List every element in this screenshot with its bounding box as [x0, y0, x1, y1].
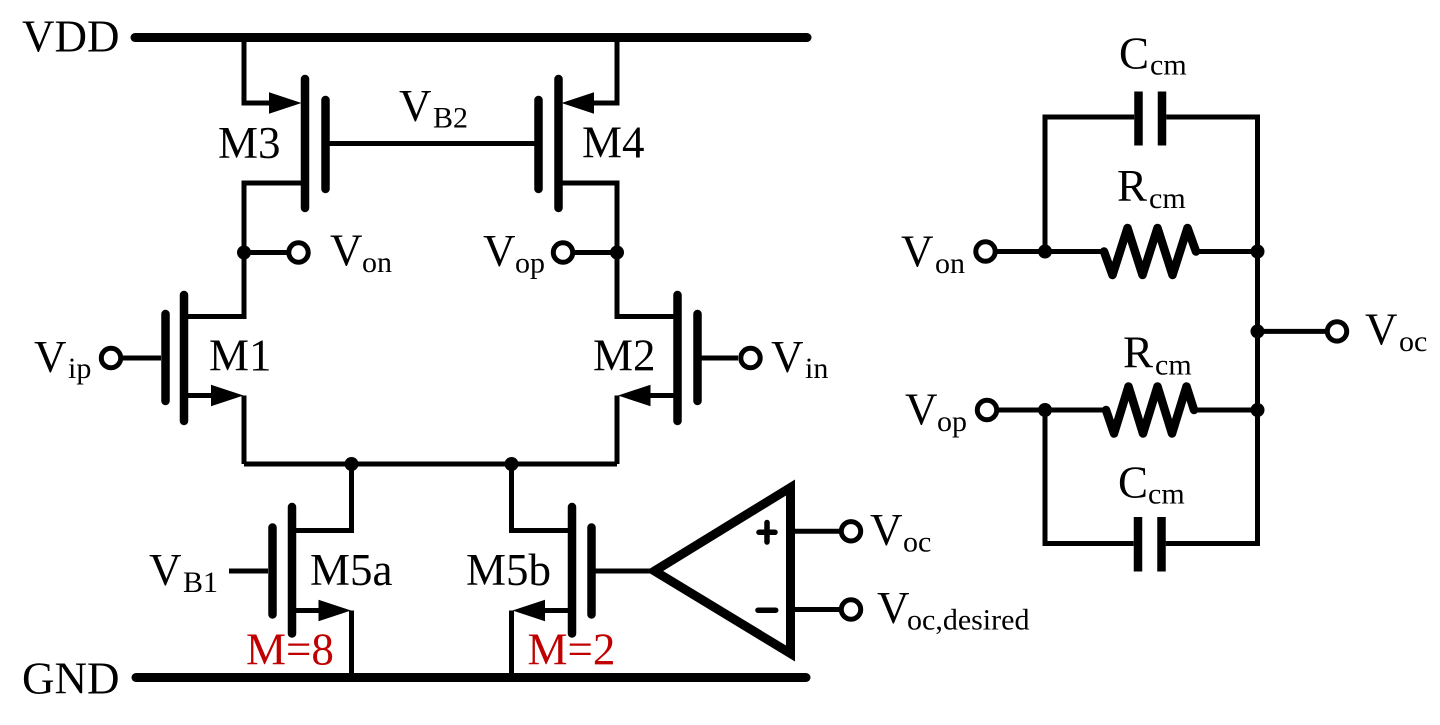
- wire M5b source with arrow to GND: [512, 600, 569, 678]
- transistor M5b: [466, 507, 592, 634]
- svg-text:GND: GND: [22, 654, 120, 704]
- svg-text:M3: M3: [218, 118, 281, 168]
- op-amp U1: [655, 488, 791, 654]
- svg-text:cm: cm: [1148, 478, 1185, 511]
- node Von-Ccm junction: [1038, 245, 1052, 259]
- svg-text:M2: M2: [593, 331, 656, 381]
- svg-text:M=8: M=8: [246, 625, 334, 675]
- svg-text:cm: cm: [1155, 349, 1192, 382]
- wire Rcm bottom to right column: [1194, 408, 1258, 413]
- label Ccm bottom: [1118, 458, 1185, 511]
- svg-text:V: V: [34, 332, 67, 382]
- transistor M4: [539, 79, 645, 208]
- svg-text:on: on: [935, 247, 965, 280]
- node tail right: [505, 457, 519, 471]
- wire M5a source with arrow to GND: [296, 600, 352, 678]
- capacitor Ccm bottom: [1138, 517, 1162, 572]
- wire Rcm top to right column: [1196, 249, 1258, 254]
- svg-text:oc: oc: [903, 526, 931, 559]
- svg-text:C: C: [1118, 458, 1148, 508]
- node Voc: [1251, 305, 1428, 359]
- wire M5b gate to op-amp: [596, 569, 657, 574]
- wire top loop right: [1166, 117, 1257, 252]
- VDD rail: [135, 33, 807, 42]
- node tail left: [345, 457, 359, 471]
- resistor Rcm bottom: [1106, 387, 1194, 434]
- svg-text:oc: oc: [1399, 325, 1427, 358]
- wire M5b drain to tail: [512, 464, 569, 531]
- wire tail node: [244, 462, 617, 467]
- label Rcm bottom: [1123, 328, 1192, 382]
- svg-text:V: V: [901, 227, 934, 277]
- wire right column middle: [1255, 252, 1260, 411]
- wire M4 drain to node Vop: [559, 183, 618, 253]
- wire VDD to M3 source: [244, 38, 270, 104]
- svg-text:M1: M1: [209, 331, 272, 381]
- transistor M2: [593, 295, 698, 421]
- terminal Vip: [34, 332, 161, 385]
- svg-text:VDD: VDD: [22, 12, 120, 62]
- svg-text:V: V: [771, 332, 804, 382]
- label Ccm top: [1119, 29, 1187, 82]
- GND rail: [136, 673, 806, 682]
- wire bottom loop left: [1045, 410, 1134, 544]
- node Von: [237, 226, 392, 279]
- svg-text:R: R: [1123, 328, 1153, 378]
- svg-text:B1: B1: [183, 566, 218, 599]
- svg-text:on: on: [362, 246, 392, 279]
- svg-text:V: V: [330, 226, 363, 276]
- svg-text:M5a: M5a: [310, 545, 393, 595]
- wire M2 drain to Vop: [617, 253, 674, 317]
- resistor Rcm top: [1104, 228, 1196, 275]
- wire VDD to M4 source: [593, 38, 617, 104]
- svg-text:V: V: [905, 385, 938, 435]
- wire M5a drain to tail: [296, 464, 352, 531]
- wire M2 source with arrow: [617, 385, 674, 464]
- svg-text:B2: B2: [433, 102, 468, 135]
- wire M3 drain to node Von: [244, 183, 305, 253]
- svg-text:R: R: [1117, 161, 1147, 211]
- svg-text:ip: ip: [68, 352, 91, 385]
- terminal Voc,desired of op-amp: [791, 583, 1030, 637]
- wire top loop left: [1045, 117, 1134, 252]
- svg-text:V: V: [399, 81, 432, 131]
- svg-text:M4: M4: [582, 118, 645, 168]
- svg-text:V: V: [870, 505, 903, 555]
- wire gate bus VB2: [330, 141, 535, 146]
- node Vop: [483, 226, 624, 280]
- capacitor Ccm top: [1139, 92, 1163, 146]
- svg-text:C: C: [1119, 29, 1149, 79]
- svg-text:V: V: [149, 545, 182, 595]
- svg-text:oc,desired: oc,desired: [907, 604, 1029, 637]
- label VB1: [149, 545, 218, 599]
- terminal Voc of op-amp: [791, 505, 932, 559]
- node Vop-Ccm junction: [1038, 403, 1052, 417]
- wire VB1 to M5a gate: [229, 569, 268, 574]
- transistor M5a: [273, 507, 393, 634]
- svg-text:V: V: [1365, 305, 1398, 355]
- transistor M3: [218, 79, 326, 208]
- svg-text:op: op: [937, 405, 967, 438]
- wire M1 source with arrow: [188, 385, 244, 464]
- svg-text:M5b: M5b: [466, 545, 551, 595]
- label VB2: [399, 81, 468, 135]
- svg-text:op: op: [515, 247, 545, 280]
- node resistor top right: [1251, 245, 1265, 259]
- svg-text:M=2: M=2: [528, 625, 616, 675]
- wire bottom loop right: [1166, 410, 1258, 544]
- svg-text:cm: cm: [1150, 49, 1187, 82]
- terminal Vop right: [905, 385, 1106, 439]
- svg-text:V: V: [877, 583, 910, 633]
- svg-text:V: V: [483, 226, 516, 276]
- terminal Von right: [901, 227, 1104, 281]
- terminal Vin: [702, 332, 829, 385]
- wire M1 drain to Von: [188, 253, 244, 317]
- transistor M1: [166, 295, 272, 421]
- svg-text:in: in: [805, 352, 828, 385]
- node resistor bottom right: [1251, 403, 1265, 417]
- label Rcm top: [1117, 161, 1186, 215]
- svg-text:cm: cm: [1149, 182, 1186, 215]
